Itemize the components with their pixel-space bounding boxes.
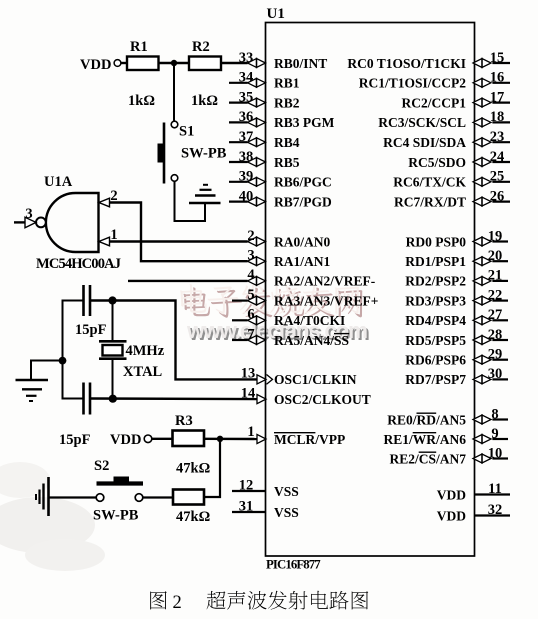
svg-text:2: 2 bbox=[173, 593, 182, 613]
pin 18 RC3/SCK/SCL bbox=[378, 109, 510, 130]
pin 12 VSS bbox=[232, 477, 299, 499]
pin 6 RA4/T0CKI bbox=[232, 307, 345, 329]
svg-text:VDD: VDD bbox=[437, 487, 466, 502]
svg-text:15pF: 15pF bbox=[75, 322, 107, 338]
svg-text:28: 28 bbox=[488, 327, 503, 343]
svg-text:30: 30 bbox=[488, 366, 503, 382]
svg-text:RD7/PSP7: RD7/PSP7 bbox=[405, 372, 466, 387]
svg-text:1kΩ: 1kΩ bbox=[128, 93, 155, 109]
wire C1 to OSC1 node bbox=[90, 301, 258, 380]
pin 3 RA1/AN1 bbox=[247, 248, 330, 269]
svg-text:RE1/WR/AN6: RE1/WR/AN6 bbox=[383, 432, 466, 447]
svg-text:RE2/CS/AN7: RE2/CS/AN7 bbox=[389, 451, 466, 466]
pin 10 RE2/CS/AN7 bbox=[389, 445, 508, 466]
resistor R3 bbox=[173, 413, 205, 446]
svg-text:4: 4 bbox=[247, 267, 254, 283]
svg-text:MCLR/VPP: MCLR/VPP bbox=[274, 432, 345, 447]
svg-text:SW-PB: SW-PB bbox=[93, 508, 139, 524]
power VDD (R3) bbox=[110, 432, 152, 448]
pin 23 RC4 SDI/SDA bbox=[383, 129, 510, 150]
svg-text:31: 31 bbox=[239, 498, 254, 514]
svg-text:RB6/PGC: RB6/PGC bbox=[274, 175, 332, 190]
svg-text:VDD: VDD bbox=[80, 57, 111, 73]
svg-text:RA3/AN3/VREF+: RA3/AN3/VREF+ bbox=[274, 293, 378, 308]
svg-text:2: 2 bbox=[247, 228, 254, 244]
svg-text:19: 19 bbox=[488, 228, 503, 244]
wire VDD to R3 bbox=[152, 438, 173, 440]
pin 30 RD7/PSP7 bbox=[405, 366, 508, 387]
pin 5 RA3/AN3 VREF+ bbox=[232, 287, 378, 309]
wire R4 to S2 bbox=[143, 496, 173, 498]
pin 33 RB0/INT bbox=[221, 50, 327, 71]
svg-text:RD0 PSP0: RD0 PSP0 bbox=[406, 234, 467, 249]
pin 15 RC0 T1OSO/T1CKI bbox=[347, 50, 510, 71]
pin 25 RC6/TX/CK bbox=[393, 169, 510, 190]
wire node A down to S1 bbox=[173, 63, 175, 121]
ground (crystal bus earth) bbox=[16, 380, 49, 401]
svg-text:RE0/RD/AN5: RE0/RD/AN5 bbox=[387, 412, 466, 427]
power VDD (top) bbox=[80, 57, 121, 73]
svg-text:1kΩ: 1kΩ bbox=[191, 93, 218, 109]
pin 3 gate output bbox=[14, 206, 36, 228]
overline RD on RE0 label bbox=[417, 412, 437, 414]
svg-text:RB7/PGD: RB7/PGD bbox=[274, 194, 332, 209]
svg-text:RB5: RB5 bbox=[274, 155, 300, 170]
svg-text:RB3 PGM: RB3 PGM bbox=[274, 115, 335, 130]
pin 35 RB2 bbox=[229, 89, 300, 110]
svg-text:11: 11 bbox=[488, 481, 502, 497]
svg-text:RD6/PSP6: RD6/PSP6 bbox=[405, 353, 466, 368]
pin 8 RE0/RD/AN5 bbox=[387, 406, 508, 427]
svg-text:24: 24 bbox=[490, 149, 505, 165]
wire S1 to ground bbox=[175, 181, 206, 221]
svg-text:VDD: VDD bbox=[110, 432, 141, 448]
caption char 发 bbox=[268, 591, 287, 610]
svg-text:25: 25 bbox=[490, 169, 505, 185]
wire left bus top corner to C1 bbox=[63, 301, 84, 399]
svg-text:RA1/AN1: RA1/AN1 bbox=[274, 254, 330, 269]
wire R1 to node A bbox=[159, 62, 190, 64]
ground (S1, inverted earth) bbox=[189, 185, 221, 203]
node XTAL top junction dot bbox=[108, 296, 116, 304]
svg-text:RB4: RB4 bbox=[274, 135, 300, 150]
svg-text:7: 7 bbox=[247, 326, 254, 342]
svg-text:36: 36 bbox=[239, 109, 254, 125]
caption char 电 bbox=[311, 591, 328, 609]
svg-text:RD2/PSP2: RD2/PSP2 bbox=[405, 274, 466, 289]
pin 40 RB7/PGD bbox=[229, 188, 332, 209]
svg-text:1: 1 bbox=[247, 424, 254, 440]
svg-text:S2: S2 bbox=[94, 458, 109, 474]
ground (S2, rotated earth) bbox=[36, 477, 49, 516]
svg-text:5: 5 bbox=[247, 287, 254, 303]
svg-text:39: 39 bbox=[239, 169, 254, 185]
pin 2 gate input arrow bbox=[99, 188, 118, 207]
svg-text:12: 12 bbox=[239, 477, 254, 493]
svg-text:RB0/INT: RB0/INT bbox=[274, 56, 327, 71]
pin 38 RB5 bbox=[229, 149, 300, 170]
caption char 声 bbox=[227, 591, 245, 610]
caption char 射 bbox=[289, 591, 308, 610]
svg-text:15pF: 15pF bbox=[59, 432, 91, 448]
pin 34 RB1 bbox=[229, 70, 300, 91]
svg-text:10: 10 bbox=[488, 445, 503, 461]
svg-text:8: 8 bbox=[491, 406, 498, 422]
svg-text:47kΩ: 47kΩ bbox=[176, 509, 210, 525]
pin 39 RB6/PGC bbox=[229, 169, 332, 190]
wire node B down to R4 bbox=[204, 439, 220, 497]
svg-text:22: 22 bbox=[488, 287, 503, 303]
caption char 图 bbox=[352, 591, 369, 609]
svg-text:RA4/T0CKI: RA4/T0CKI bbox=[274, 313, 345, 328]
svg-text:XTAL: XTAL bbox=[123, 364, 163, 380]
svg-text:U1A: U1A bbox=[44, 174, 73, 190]
svg-text:RD1/PSP1: RD1/PSP1 bbox=[405, 254, 466, 269]
svg-text:RC7/RX/DT: RC7/RX/DT bbox=[394, 194, 466, 209]
node B junction dot bbox=[217, 436, 223, 442]
node A junction dot bbox=[171, 60, 177, 66]
pin 24 RC5/SDO bbox=[408, 149, 510, 170]
overline CS on RE2 label bbox=[419, 451, 437, 453]
switch S2 SW-PB bbox=[93, 458, 143, 524]
svg-text:23: 23 bbox=[490, 129, 505, 145]
svg-text:S1: S1 bbox=[179, 124, 194, 140]
svg-text:38: 38 bbox=[239, 149, 254, 165]
resistor R2 bbox=[189, 39, 221, 70]
svg-text:47kΩ: 47kΩ bbox=[176, 461, 210, 477]
wire R3 to MCLR pin 1 bbox=[204, 438, 258, 441]
svg-text:U1: U1 bbox=[267, 6, 285, 22]
svg-text:R3: R3 bbox=[175, 413, 193, 429]
wire C2 to OSC2 bbox=[90, 397, 257, 400]
pin 22 RD3/PSP3 bbox=[405, 287, 508, 308]
caption char 超 bbox=[207, 591, 226, 610]
svg-text:34: 34 bbox=[239, 70, 254, 86]
svg-text:RB1: RB1 bbox=[274, 76, 300, 91]
svg-text:RD3/PSP3: RD3/PSP3 bbox=[405, 293, 466, 308]
svg-text:VSS: VSS bbox=[274, 505, 299, 520]
svg-text:RC1/T1OSI/CCP2: RC1/T1OSI/CCP2 bbox=[359, 76, 467, 91]
wire to RA2 (pin 4 of U1) bbox=[128, 280, 248, 282]
pin 32 VDD bbox=[437, 502, 510, 524]
svg-text:18: 18 bbox=[490, 109, 505, 125]
watermark shadow 电子发烧友网 bbox=[183, 287, 362, 317]
svg-text:20: 20 bbox=[488, 248, 503, 264]
svg-text:RA5/AN4/SS: RA5/AN4/SS bbox=[274, 333, 349, 348]
pin 11 VDD bbox=[437, 481, 510, 503]
svg-text:R1: R1 bbox=[130, 39, 148, 55]
IC U1 PIC16F877 body bbox=[266, 23, 475, 557]
svg-text:29: 29 bbox=[488, 347, 503, 363]
caption char 波 bbox=[248, 591, 267, 610]
svg-text:4MHz: 4MHz bbox=[126, 343, 165, 359]
overline SS on RA5 label bbox=[334, 333, 349, 335]
svg-text:OSC2/CLKOUT: OSC2/CLKOUT bbox=[274, 392, 371, 407]
wire S2 to ground bbox=[49, 496, 96, 498]
svg-text:RA2/AN2/VREF-: RA2/AN2/VREF- bbox=[274, 274, 375, 289]
wire gate input 1 to RA0 (pin 2 of U1) bbox=[110, 240, 248, 242]
svg-text:26: 26 bbox=[490, 188, 505, 204]
svg-text:RD4/PSP4: RD4/PSP4 bbox=[405, 313, 466, 328]
capacitor C2 15pF (bottom) bbox=[59, 383, 91, 449]
pin 13 OSC1/CLKIN bbox=[241, 366, 357, 388]
pin 27 RD4/PSP4 bbox=[405, 307, 508, 328]
svg-text:SW-PB: SW-PB bbox=[181, 146, 227, 162]
pin 14 OSC2/CLKOUT bbox=[241, 385, 371, 407]
svg-text:RA0/AN0: RA0/AN0 bbox=[274, 234, 330, 249]
svg-text:3: 3 bbox=[247, 248, 254, 264]
svg-text:RC6/TX/CK: RC6/TX/CK bbox=[393, 175, 466, 190]
svg-text:40: 40 bbox=[239, 188, 254, 204]
svg-text:PIC16F877: PIC16F877 bbox=[266, 558, 321, 572]
svg-text:16: 16 bbox=[490, 70, 505, 86]
pin 17 RC2/CCP1 bbox=[402, 89, 511, 110]
pin 1 MCLR/VPP bbox=[247, 424, 345, 447]
svg-text:9: 9 bbox=[491, 426, 498, 442]
NAND gate U1A (MC54HC00AJ) body bbox=[36, 174, 99, 252]
switch S1 SW-PB bbox=[158, 121, 227, 183]
overline MCLR on pin1 label bbox=[274, 432, 315, 434]
svg-text:35: 35 bbox=[239, 89, 254, 105]
svg-text:VDD: VDD bbox=[437, 508, 466, 523]
svg-text:27: 27 bbox=[488, 307, 503, 323]
resistor R4 47kΩ bbox=[173, 490, 210, 526]
crystal Y1 4MHz XTAL bbox=[99, 301, 165, 399]
svg-text:RC3/SCK/SCL: RC3/SCK/SCL bbox=[378, 115, 466, 130]
wire VDD to R1 bbox=[121, 62, 127, 64]
svg-text:15: 15 bbox=[490, 50, 505, 66]
svg-text:OSC1/CLKIN: OSC1/CLKIN bbox=[274, 372, 357, 387]
pin 31 VSS bbox=[232, 498, 299, 520]
caption char 图 bbox=[150, 591, 167, 609]
pin 4 RA2 AN2/VREF- bbox=[247, 267, 375, 289]
svg-text:R2: R2 bbox=[192, 39, 210, 55]
overline WR on RE1 label bbox=[413, 432, 437, 434]
pin 20 RD1/PSP1 bbox=[405, 248, 508, 269]
capacitor C1 15pF (top) bbox=[75, 285, 107, 338]
node XTAL bottom junction dot bbox=[109, 395, 117, 403]
pin 1 gate input arrow bbox=[99, 227, 118, 246]
caption 图 2 超声波发射电路图 bbox=[150, 591, 368, 613]
svg-text:RB2: RB2 bbox=[274, 95, 300, 110]
svg-text:17: 17 bbox=[490, 89, 505, 105]
wire gate input 2 to RA1 (pin 3 of U1) bbox=[110, 203, 248, 262]
pin 7 RA5/AN4/SS bbox=[232, 326, 349, 348]
svg-text:32: 32 bbox=[488, 502, 503, 518]
caption char 路 bbox=[330, 591, 349, 610]
svg-text:37: 37 bbox=[239, 129, 254, 145]
pin 26 RC7/RX/DT bbox=[394, 188, 510, 209]
pin 9 RE1/WR/AN6 bbox=[383, 426, 508, 447]
pin 2 RA0/AN0 bbox=[247, 228, 330, 250]
svg-text:RC4 SDI/SDA: RC4 SDI/SDA bbox=[383, 135, 466, 150]
pin 37 RB4 bbox=[229, 129, 300, 150]
svg-text:33: 33 bbox=[239, 50, 254, 66]
svg-text:3: 3 bbox=[25, 206, 32, 222]
watermark core 电子发烧友网 bbox=[180, 284, 359, 314]
svg-text:MC54HC00AJ: MC54HC00AJ bbox=[36, 256, 121, 272]
svg-text:RC2/CCP1: RC2/CCP1 bbox=[402, 95, 467, 110]
pin 28 RD5/PSP5 bbox=[405, 327, 508, 348]
pin 16 RC1/T1OSI/CCP2 bbox=[359, 70, 510, 91]
svg-text:RC0 T1OSO/T1CKI: RC0 T1OSO/T1CKI bbox=[347, 56, 466, 71]
svg-text:VSS: VSS bbox=[274, 484, 299, 499]
resistor R1 bbox=[127, 39, 159, 70]
svg-text:21: 21 bbox=[488, 268, 503, 284]
pin 36 RB3 PGM bbox=[229, 109, 335, 130]
node ground tap junction dot bbox=[59, 357, 67, 365]
pin 29 RD6/PSP6 bbox=[405, 347, 508, 368]
svg-text:RD5/PSP5: RD5/PSP5 bbox=[405, 333, 466, 348]
svg-text:RC5/SDO: RC5/SDO bbox=[408, 155, 466, 170]
wire bus to ground tap bbox=[31, 361, 63, 381]
pin 21 RD2/PSP2 bbox=[405, 268, 508, 289]
pin 19 RD0 PSP0 bbox=[406, 228, 508, 249]
svg-text:6: 6 bbox=[247, 307, 254, 323]
